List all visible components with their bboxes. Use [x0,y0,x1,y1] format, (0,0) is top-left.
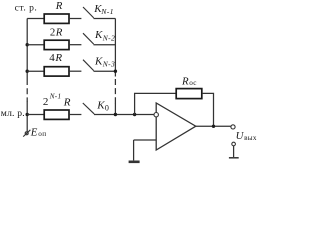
label E_оп [30,126,47,138]
wire left input bus vertical solid upper [26,19,28,80]
wire feedback tap up from summing node [135,93,176,114]
resistor R3 box [44,67,69,76]
wire right bus vertical solid upper [114,19,116,77]
wire row2 switch to right bus [94,44,116,46]
svg-text:K: K [94,29,103,41]
wire right bus solid lower [114,103,116,115]
wire op-amp output [196,125,231,127]
switch K_N-1 arm [83,7,94,18]
label K_N-3 [94,56,115,69]
wire non-inverting input [134,139,156,141]
svg-text:K: K [96,100,105,112]
svg-text:R: R [181,75,189,87]
terminal output circle [231,125,235,129]
wire row1 left [27,18,44,20]
switch K_0 arm [83,103,94,114]
svg-text:N-2: N-2 [102,33,115,42]
label K_N-2 [94,29,115,42]
label 2^(N-1)R (row4 value) [43,92,71,108]
node junction dot left bus row4 [26,113,29,116]
svg-text:2R: 2R [50,27,63,39]
label R (row1 value) [55,0,63,12]
svg-text:4R: 4R [49,52,62,64]
svg-text:0: 0 [105,104,109,113]
svg-text:E: E [30,126,38,138]
ground bar (op-amp +input) [129,161,140,164]
switch K_N-2 arm [83,33,94,44]
wire row1 switch to right bus [94,18,116,20]
wire non-inverting to ground [133,140,135,160]
wire row4 left [27,114,44,116]
svg-text:оп: оп [38,130,46,138]
label 4R (row3 value) [49,52,62,64]
wire row4 switch to summing node [94,114,154,116]
node junction dot left bus row3 [26,70,29,73]
op-amp inverting input circle [154,113,158,117]
svg-text:N-3: N-3 [102,60,115,69]
label U_вых [236,130,257,142]
label K_N-1 [93,3,114,16]
switch K_N-3 arm [83,60,94,71]
wire row4 box to switch [69,114,81,116]
wire row3 box to switch [69,70,81,72]
ground bar (output reference) [229,157,239,159]
svg-text:вых: вых [244,134,257,142]
resistor R1 box [44,14,69,23]
label R_ос [181,75,197,87]
resistor R2 box [44,40,69,49]
node junction dot right bus row4 [114,113,117,116]
svg-text:2: 2 [43,96,49,108]
resistor Roc box [176,89,202,99]
wire left input bus dashed middle [26,79,28,102]
node junction dot left bus row2 [26,43,29,46]
resistor R4 box [44,110,69,119]
svg-text:ос: ос [189,79,197,87]
terminal Eoп arrow symbol at bottom of bus [23,130,30,137]
node junction dot output [212,125,215,128]
wire ground terminal down [233,146,235,157]
wire row1 box to switch [69,18,81,20]
label K_0 [96,100,109,113]
svg-text:N-1: N-1 [49,92,62,100]
wire row2 box to switch [69,44,81,46]
label "ст. р." (MSB) [15,2,38,13]
wire row2 left [27,44,44,46]
node junction dot summing node [133,113,136,116]
svg-text:K: K [94,56,103,68]
label 2R (row2 value) [50,27,63,39]
svg-text:мл. р.: мл. р. [1,108,25,119]
svg-text:R: R [55,0,63,12]
op-amp U1 triangle [156,103,196,150]
wire row3 left [27,70,44,72]
wire feedback right down to output [202,93,214,126]
terminal ground circle (output reference) [232,142,236,146]
node junction dot right bus row3 [114,70,117,73]
wire row3 switch to right bus [94,70,116,72]
wire right bus dashed middle [114,79,116,103]
svg-text:R: R [63,97,71,109]
label "мл. р." (LSB) [1,108,25,119]
svg-text:N-1: N-1 [100,7,114,16]
wire left input bus vertical solid lower [26,102,28,133]
svg-text:ст. р.: ст. р. [15,2,38,13]
